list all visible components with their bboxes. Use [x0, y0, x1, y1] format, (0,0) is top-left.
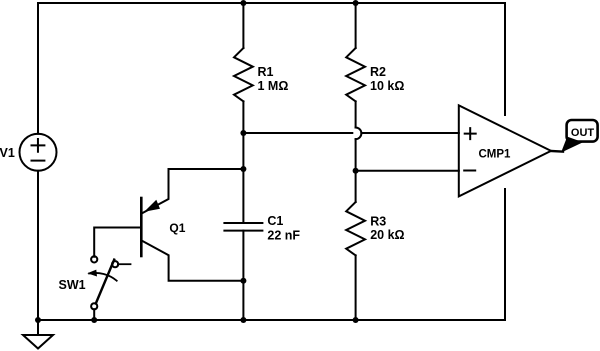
junction Q1 emitter node: [240, 166, 246, 172]
wire Q1 collector to node: [141, 240, 243, 280]
svg-text:OUT: OUT: [571, 127, 595, 139]
junction top rail R1: [240, 0, 246, 6]
wire V1 top lead: [37, 3, 39, 134]
transistor Q1 base bar: [140, 198, 143, 256]
wire R1 top lead: [242, 3, 244, 48]
wire R2 bottom lead: [355, 101, 357, 127]
junction bottom rail R3: [353, 317, 359, 323]
svg-text:CMP1: CMP1: [479, 148, 512, 160]
junction top rail R2: [353, 0, 359, 6]
transistor Q1 arrow head: [144, 200, 160, 212]
svg-text:10 kΩ: 10 kΩ: [370, 79, 404, 93]
wire C1 bottom lead: [242, 231, 244, 320]
ground: [37, 320, 39, 335]
svg-text:Q1: Q1: [169, 221, 185, 235]
wire hop over node A wire: [356, 128, 362, 140]
junction node A: [240, 130, 246, 136]
wire C1 top lead: [242, 133, 244, 223]
wire V1 bottom lead: [37, 171, 39, 320]
junction bottom rail C1: [240, 317, 246, 323]
junction Q1 collector node: [240, 278, 246, 284]
wire node B to comparator - input: [356, 170, 459, 172]
switch SW1 actuation arrow head: [87, 270, 97, 277]
flag OUT: [567, 120, 598, 142]
wire SW1 bottom lead: [93, 309, 95, 320]
wire node B: [355, 139, 357, 202]
svg-text:R3: R3: [370, 214, 386, 228]
wire R2 top lead: [355, 3, 357, 48]
voltage source V1: [20, 134, 57, 171]
svg-text:22 nF: 22 nF: [267, 228, 300, 242]
resistor R1: [234, 48, 253, 101]
wire CMP1 positive supply pin: [504, 3, 506, 115]
wire R3 bottom lead: [355, 255, 357, 320]
flag OUT tail: [561, 137, 583, 153]
svg-text:1 MΩ: 1 MΩ: [258, 79, 289, 93]
svg-text:20 kΩ: 20 kΩ: [370, 228, 404, 242]
svg-text:C1: C1: [267, 214, 283, 228]
wire bottom rail: [38, 319, 505, 321]
capacitor C1: [224, 223, 262, 231]
wire node A to comparator + input: [243, 132, 458, 134]
resistor R3: [346, 202, 365, 255]
wire CMP1 negative supply pin: [504, 189, 506, 320]
resistor R2: [346, 48, 365, 101]
wire Q1 emitter to node: [141, 169, 243, 214]
op-amp CMP1: [459, 105, 551, 196]
svg-text:SW1: SW1: [59, 278, 86, 292]
svg-text:R2: R2: [370, 65, 386, 79]
svg-text:V1: V1: [0, 146, 15, 160]
wire Q1 base lead: [94, 228, 141, 257]
switch SW1: [91, 256, 97, 262]
junction bottom rail ground: [35, 317, 41, 323]
wire R1 bottom lead: [242, 101, 244, 133]
junction bottom rail SW1: [91, 317, 97, 323]
junction node B: [353, 168, 359, 174]
svg-text:R1: R1: [258, 65, 274, 79]
wire CMP1 output to OUT: [551, 150, 563, 153]
wire top rail: [38, 2, 505, 4]
